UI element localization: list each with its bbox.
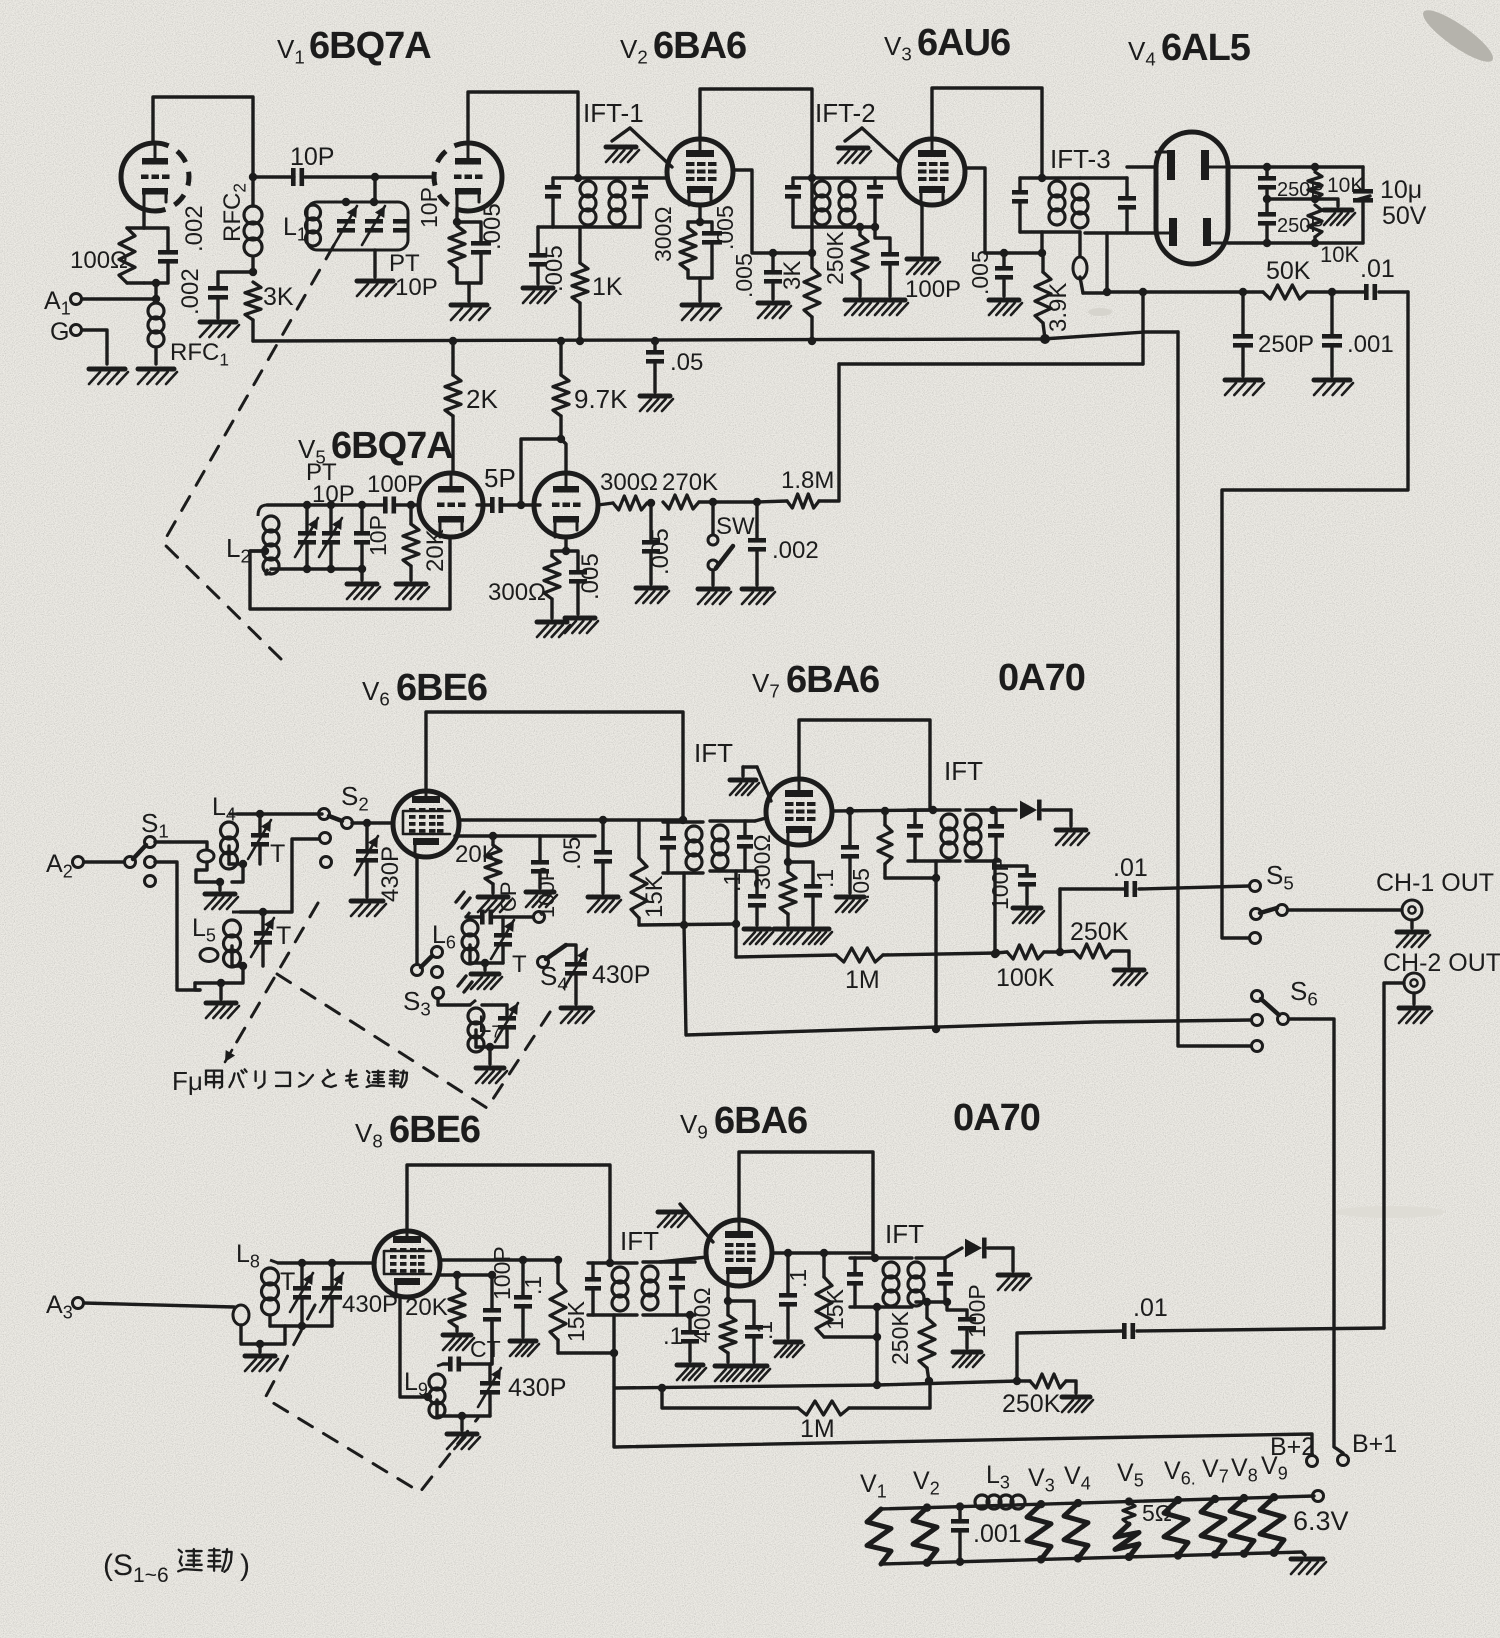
wire V7 out xyxy=(832,807,933,815)
svg-text:50V: 50V xyxy=(1382,202,1427,230)
ground (.1 V7) xyxy=(803,929,832,944)
label L6 xyxy=(432,921,456,953)
svg-text:6AL5: 6AL5 xyxy=(1161,27,1251,69)
ground (.05 V6) xyxy=(588,897,621,912)
label 3K (V2) xyxy=(779,261,806,290)
ground (250K IFT-2) xyxy=(845,300,878,315)
capacitor 100P (IFT-2) xyxy=(875,227,899,296)
svg-text:300Ω: 300Ω xyxy=(749,834,775,890)
node 9.7K bus xyxy=(557,337,565,345)
tube V8 (6BE6) xyxy=(374,1231,440,1297)
terminal B+1 xyxy=(1338,1430,1398,1466)
ground (20K V6) xyxy=(478,897,511,912)
ground (V3 cathode) xyxy=(907,259,940,274)
ground (V1b cathode) xyxy=(451,305,490,320)
line IFT3 loop to 50K line xyxy=(1083,288,1111,296)
heater V4 xyxy=(1064,1462,1091,1563)
svg-text:10μ: 10μ xyxy=(1380,176,1422,204)
label .05 (V7) xyxy=(848,868,874,900)
wire V8 out top xyxy=(440,1256,562,1264)
label 250K (AM1) xyxy=(1070,918,1129,946)
wire main bus xyxy=(253,332,1178,341)
svg-text:T: T xyxy=(512,951,527,978)
label .05 (bus) xyxy=(670,349,703,376)
label 100P (V6 osc) xyxy=(534,867,559,918)
wire V3 plate rail xyxy=(932,88,1042,178)
dashed gang triangle (AM1) xyxy=(277,974,552,1108)
ground (IFT-1 pointer) xyxy=(606,147,639,162)
IFT-3 tertiary loop xyxy=(1073,232,1087,293)
label 1K xyxy=(592,273,623,301)
label .001 (heater) xyxy=(973,1520,1022,1548)
wire V1 cathode down xyxy=(142,208,145,228)
heater top line xyxy=(881,1496,1314,1509)
wire V8 out bottom xyxy=(440,1271,496,1279)
wire V7 input xyxy=(755,818,766,821)
wire S2 pole to V6 xyxy=(352,819,392,827)
heater V2 xyxy=(913,1467,940,1567)
IFT-3 tank xyxy=(1012,174,1088,232)
svg-text:1K: 1K xyxy=(592,273,623,301)
label V1 6BQ7A xyxy=(277,25,431,68)
svg-text:3K: 3K xyxy=(263,283,294,311)
label 300ohm (V7) xyxy=(749,834,775,890)
tube V1 (6BQ7A a) xyxy=(121,143,189,211)
diode 0A70 (ch1) xyxy=(1000,800,1071,826)
wire FM out to S5 xyxy=(1222,292,1408,938)
label T (L8) xyxy=(280,1268,295,1296)
label 430P (AM1 ant) xyxy=(377,846,404,902)
resistor 20K (V6) xyxy=(485,836,501,893)
svg-text:IFT: IFT xyxy=(694,738,733,768)
label 3.9K xyxy=(1045,283,1072,332)
ground (.1 V8) xyxy=(510,1341,539,1356)
svg-text:): ) xyxy=(240,1549,250,1582)
wire CP line xyxy=(466,915,480,918)
label T (L5) xyxy=(276,922,291,950)
node .005 out xyxy=(647,499,655,507)
wire .01 tap (AM1) xyxy=(1060,889,1124,952)
svg-text:15K: 15K xyxy=(822,1288,848,1330)
label 100P (AM2 det) xyxy=(964,1284,990,1338)
wire 100P to CT xyxy=(490,1322,493,1364)
switch S2 xyxy=(319,809,353,868)
svg-text:IFT: IFT xyxy=(944,756,983,786)
label 1M (AM2) xyxy=(800,1415,835,1443)
resistor (V7 screen) xyxy=(878,811,940,882)
resistor 1.8M xyxy=(757,494,819,508)
wire IFT-2 to V3 xyxy=(875,176,899,179)
tube V5a (6BQ7A) xyxy=(419,473,483,537)
ground (.005 V5 out) xyxy=(636,588,669,603)
resistor 300ohm series xyxy=(598,496,647,510)
ground (.002 V5 out) xyxy=(742,589,775,604)
wire L9 bottom xyxy=(437,1400,490,1430)
tube V9 (6BA6) xyxy=(706,1220,772,1286)
wire L8 bottom xyxy=(256,1317,332,1352)
label S4 xyxy=(540,961,568,995)
label 250P (lower) xyxy=(1277,215,1324,237)
label 10K (lower) xyxy=(1320,242,1359,267)
label 100P (AM1 det) xyxy=(987,856,1013,910)
svg-text:430P: 430P xyxy=(377,846,404,902)
L5 primary loop xyxy=(195,949,218,991)
wire 1M line (AM1) xyxy=(736,955,836,957)
svg-text:100P: 100P xyxy=(905,276,961,303)
wire IFT2-AM1 primary bottom xyxy=(934,861,937,1029)
tube V4 (6AL5) xyxy=(1156,132,1228,264)
wire IFT-A bottom node xyxy=(639,873,740,929)
svg-text:.005: .005 xyxy=(967,250,993,295)
ground (250K AM2) xyxy=(1062,1397,1093,1412)
svg-text:.05: .05 xyxy=(559,837,586,870)
label V3 6AU6 xyxy=(884,22,1010,65)
label 15K (V8) xyxy=(563,1300,589,1342)
svg-text:9.7K: 9.7K xyxy=(574,384,628,414)
ground (.1 V9 screen) xyxy=(775,1342,804,1357)
ground (10K mid) xyxy=(1324,210,1355,225)
wire IFT2-AM2 primary bottom xyxy=(873,1307,881,1389)
IFT-AM2 first secondary xyxy=(642,1262,695,1319)
resistor 250K (AM1) xyxy=(1060,944,1129,966)
wire CH-2 feed xyxy=(1384,983,1404,1328)
capacitor 100P (V8 osc) xyxy=(483,1275,501,1363)
wire AVC line (FM) xyxy=(839,292,1143,364)
ground (RFC1) xyxy=(138,369,177,384)
label 3K (FM) xyxy=(263,283,294,311)
svg-text:CP: CP xyxy=(496,881,521,912)
capacitor .002 (V5 out) xyxy=(748,502,766,585)
switch S5 xyxy=(1250,881,1288,944)
svg-text:10P: 10P xyxy=(395,274,438,301)
tube V3 (6AU6) xyxy=(899,139,965,205)
wire V8 grid xyxy=(374,1261,375,1264)
svg-text:10P: 10P xyxy=(290,143,334,171)
resistor 3K (V2) xyxy=(804,178,820,345)
svg-text:.005: .005 xyxy=(647,528,674,575)
wire L4 top line xyxy=(237,810,322,818)
tube V5b (6BQ7A) xyxy=(534,473,598,537)
inductor L3 xyxy=(975,1461,1025,1509)
label 1M (AM1) xyxy=(845,966,880,994)
tank L2 top line xyxy=(267,501,382,509)
svg-text:G: G xyxy=(50,318,69,346)
svg-text:IFT: IFT xyxy=(885,1219,924,1249)
label 250P (detector) xyxy=(1258,331,1314,358)
label S6 xyxy=(1290,976,1318,1010)
wire RFC1 to ground xyxy=(154,349,157,364)
ground (400ohm V9) xyxy=(715,1366,744,1381)
wire S5 to CH1 xyxy=(1288,908,1402,911)
wire 50K to .01 xyxy=(1307,288,1364,296)
label 430P (osc AM2) xyxy=(508,1374,566,1402)
label 2K xyxy=(466,384,498,414)
wire S1 to L5 feed xyxy=(155,862,200,990)
capacitor 100P series (V5) xyxy=(383,497,419,514)
label 300ohm (V5b) xyxy=(488,579,546,606)
label L5 xyxy=(192,914,216,946)
terminal A2 xyxy=(46,850,84,882)
wire L1 bottom to ground xyxy=(373,250,376,277)
IFT2-AM1 primary tank xyxy=(907,806,960,861)
label .005 (IFT-1) xyxy=(541,245,568,292)
heater bottom line xyxy=(881,1552,1302,1564)
label 430P (L8) xyxy=(342,1291,398,1318)
label S1 xyxy=(141,808,169,842)
svg-text:6BQ7A: 6BQ7A xyxy=(331,425,453,467)
label 100ohm xyxy=(70,247,128,274)
svg-text:10K: 10K xyxy=(1320,242,1359,267)
label V6 6BE6 xyxy=(362,667,487,710)
trimmer capacitor 10P (L1) xyxy=(393,219,409,233)
svg-text:.01: .01 xyxy=(1360,255,1395,283)
svg-text:100P: 100P xyxy=(367,471,423,498)
label 430P (osc AM1) xyxy=(592,961,650,989)
svg-text:IFT-3: IFT-3 xyxy=(1050,144,1111,174)
label V8 6BE6 xyxy=(355,1109,480,1152)
V4 mid node xyxy=(1263,195,1338,206)
V1b cathode network xyxy=(449,208,491,301)
ground (L1) xyxy=(357,281,396,296)
svg-text:250K: 250K xyxy=(1002,1390,1061,1418)
label 300ohm series xyxy=(600,469,658,496)
resistor 2K xyxy=(445,341,461,471)
ground (430P AM1) xyxy=(351,901,386,916)
capacitor 100P (AM1 det) xyxy=(995,866,1036,904)
label S2 xyxy=(341,781,369,815)
inductor L7 xyxy=(468,1000,484,1052)
terminal B+2 xyxy=(1270,1433,1318,1467)
tank L1 box xyxy=(307,177,408,250)
label 10K (upper) xyxy=(1327,174,1364,197)
ground (G input) xyxy=(89,369,128,384)
ground (300ohm V5b) xyxy=(537,622,570,637)
label .002 (RFC2 node) xyxy=(177,268,204,315)
wire V7 plate loop xyxy=(799,720,930,810)
label 10P coupling xyxy=(290,143,334,171)
wire A2 to S1 xyxy=(84,860,124,863)
IFT2-AM1 secondary tank xyxy=(965,806,1004,861)
wire V6 out bottom xyxy=(455,832,595,840)
label 0A70 (ch1 detector) xyxy=(998,657,1085,699)
label 1.8M xyxy=(781,467,834,494)
variable capacitor 430P (osc AM2) xyxy=(478,1364,501,1416)
IFT2-AM2 primary tank xyxy=(847,1254,912,1311)
svg-text:300Ω: 300Ω xyxy=(600,469,658,496)
heater V7 xyxy=(1201,1455,1229,1559)
resistor 15K (AM1) xyxy=(631,820,647,925)
V7 cathode network xyxy=(780,845,822,925)
ground (heater) xyxy=(1291,1552,1326,1574)
resistor 20K (V8) xyxy=(449,1275,465,1331)
heater V9 xyxy=(1260,1452,1288,1557)
dashed gang arrow (AM1) xyxy=(225,903,318,1062)
inductor L2 xyxy=(258,505,279,574)
dashed gang line (FM) xyxy=(163,245,334,660)
tube V7 (6BA6) xyxy=(766,779,832,845)
resistor 9.7K xyxy=(553,341,569,472)
label IFT-3 xyxy=(1050,144,1111,174)
label L4 xyxy=(212,793,236,825)
wire L4 bottom xyxy=(229,846,247,882)
inductor RFC1 xyxy=(148,303,164,347)
wire L7 top xyxy=(482,1003,507,1006)
label T (L4) xyxy=(270,840,285,868)
label SW xyxy=(716,513,755,540)
wire V2 plate rail xyxy=(700,89,812,178)
IFT-B tank (AM1) xyxy=(710,821,755,871)
V4 bottom line xyxy=(1228,239,1363,247)
svg-text:100P: 100P xyxy=(964,1284,990,1338)
svg-text:Fμ: Fμ xyxy=(172,1066,203,1096)
label S5 xyxy=(1266,860,1294,894)
svg-text:IFT-1: IFT-1 xyxy=(583,98,644,128)
resistor 100ohm xyxy=(119,228,144,283)
svg-text:SW: SW xyxy=(716,513,755,540)
variable capacitor L1-b xyxy=(362,198,385,245)
switch S3 xyxy=(412,947,444,999)
ground (.1 V7 input) xyxy=(744,929,773,944)
label .1 (V8) xyxy=(520,1276,546,1295)
resistor 100K xyxy=(996,945,1064,959)
label 10P (L1 trimmer) xyxy=(416,187,442,228)
svg-text:0A70: 0A70 xyxy=(998,657,1085,699)
capacitor .005 (3K node) xyxy=(764,253,782,299)
resistor 5ohm + heater V5 xyxy=(1115,1459,1144,1561)
wire 15K to IFT bottom xyxy=(558,1349,618,1357)
svg-text:1M: 1M xyxy=(800,1415,835,1443)
label .005 (V5 out) xyxy=(647,528,674,575)
capacitor .001 (detector) xyxy=(1322,292,1342,376)
switch S6 xyxy=(1252,991,1289,1052)
svg-text:IFT-2: IFT-2 xyxy=(815,98,876,128)
wire to .002 xyxy=(713,498,761,506)
label V7 6BA6 xyxy=(752,659,879,702)
wire to S6 line xyxy=(684,925,1251,1035)
svg-text:430P: 430P xyxy=(508,1374,566,1402)
variable capacitor T (L7) xyxy=(495,1003,518,1047)
ground (.05 bus) xyxy=(640,396,673,411)
svg-text:6BA6: 6BA6 xyxy=(714,1100,807,1142)
wire V9 out xyxy=(772,1249,873,1257)
svg-text:20K: 20K xyxy=(405,1294,448,1321)
label .005 (V1b cathode) xyxy=(479,203,506,250)
label .005 (V3 out) xyxy=(967,250,993,295)
capacitor 100P (AM2 det) xyxy=(947,1302,976,1348)
wire RFC2 node xyxy=(249,173,257,276)
svg-text:15K: 15K xyxy=(641,875,668,918)
terminal S4 top xyxy=(534,912,545,923)
terminal A3 xyxy=(46,1291,84,1323)
label L1 xyxy=(283,213,307,245)
ground (430P osc AM1) xyxy=(561,1008,594,1023)
capacitor .005 (IFT-1) xyxy=(529,227,547,284)
label .1 (V7 cathode) xyxy=(812,869,838,888)
label 0A70 (ch2 detector) xyxy=(953,1097,1040,1139)
svg-text:.001: .001 xyxy=(1347,331,1394,358)
wire A1 to RFC1 node xyxy=(82,295,160,303)
label .01 (AM1) xyxy=(1113,854,1148,882)
wire .01 to S5 xyxy=(1139,886,1249,889)
ground (20K V5) xyxy=(396,584,429,599)
heater V1 xyxy=(860,1470,891,1564)
ground (L4) xyxy=(205,894,238,909)
ground (100P AM1 det) xyxy=(1013,908,1044,923)
label RFC2 xyxy=(219,183,249,242)
label T (L6) xyxy=(512,951,527,978)
wire V1 plate to RFC2 rail xyxy=(153,97,253,177)
wire .01 tap (AM2) xyxy=(1017,1331,1122,1381)
gang marks (L6 top) xyxy=(456,892,470,908)
L8 primary loop xyxy=(233,1305,260,1344)
ground pointer (V9) xyxy=(658,1204,713,1242)
wire V9 plate loop xyxy=(739,1152,873,1258)
svg-text:430P: 430P xyxy=(342,1291,398,1318)
resistor 10K (lower) xyxy=(1308,205,1322,243)
L4 primary loop xyxy=(196,850,218,882)
tube V6 (6BE6) xyxy=(393,791,459,857)
svg-text:250K: 250K xyxy=(887,1311,913,1365)
inductor L6 xyxy=(462,912,478,964)
trimmer 10P (L2) xyxy=(354,531,370,545)
heater V6 xyxy=(1164,1457,1196,1560)
label IFT-2 xyxy=(815,98,876,128)
IFT2-AM2 secondary xyxy=(908,1258,953,1306)
V9 cathode network xyxy=(720,1286,736,1362)
label .001 (detector) xyxy=(1347,331,1394,358)
resistor 15K (V9) xyxy=(816,1253,881,1341)
svg-text:.005: .005 xyxy=(577,553,604,600)
capacitor 250P (upper) xyxy=(1258,167,1276,199)
wire L2 tap xyxy=(250,547,269,555)
label V9 6BA6 xyxy=(680,1100,807,1143)
svg-text:6BQ7A: 6BQ7A xyxy=(309,25,431,67)
label 20K (V6) xyxy=(455,841,498,868)
label 250K (AM2 horiz) xyxy=(1002,1390,1061,1418)
label L9 xyxy=(404,1368,428,1400)
variable capacitor L2-a xyxy=(295,518,318,557)
ground (L9) xyxy=(447,1434,480,1449)
svg-text:250K: 250K xyxy=(1070,918,1129,946)
variable capacitor T (L4) xyxy=(248,814,271,864)
wire V1b plate rail to IFT-1 xyxy=(468,92,578,178)
svg-text:300Ω: 300Ω xyxy=(488,579,546,606)
resistor 270K xyxy=(663,495,717,509)
heater V3 xyxy=(1027,1464,1055,1564)
svg-text:6BE6: 6BE6 xyxy=(396,667,487,709)
label 10u 50V xyxy=(1380,176,1427,230)
svg-text:CT: CT xyxy=(470,1336,501,1362)
svg-text:T: T xyxy=(276,922,291,950)
resistor 10K (upper) xyxy=(1308,172,1322,199)
capacitor 250P (lower) xyxy=(1258,199,1276,243)
label Fmu gang note xyxy=(172,1066,407,1096)
wire 9.7K node to grid xyxy=(517,439,561,509)
wire L7 bottom xyxy=(476,1030,507,1064)
label 9.7K xyxy=(574,384,628,414)
IFT-1 pointer xyxy=(612,128,672,167)
svg-text:.1: .1 xyxy=(663,1323,683,1350)
IFT-2 pointer xyxy=(845,128,900,163)
IFT-A tank (AM1) xyxy=(660,822,703,873)
label IFT (AM1 det) xyxy=(944,756,983,786)
wire CT line xyxy=(443,1357,492,1372)
wire V7 input bottom xyxy=(734,871,737,957)
ground (.1 AM2 sec) xyxy=(677,1365,706,1380)
label V4 6AL5 xyxy=(1128,27,1251,70)
node below 100ohm xyxy=(152,279,160,299)
svg-text:IFT: IFT xyxy=(620,1226,659,1256)
